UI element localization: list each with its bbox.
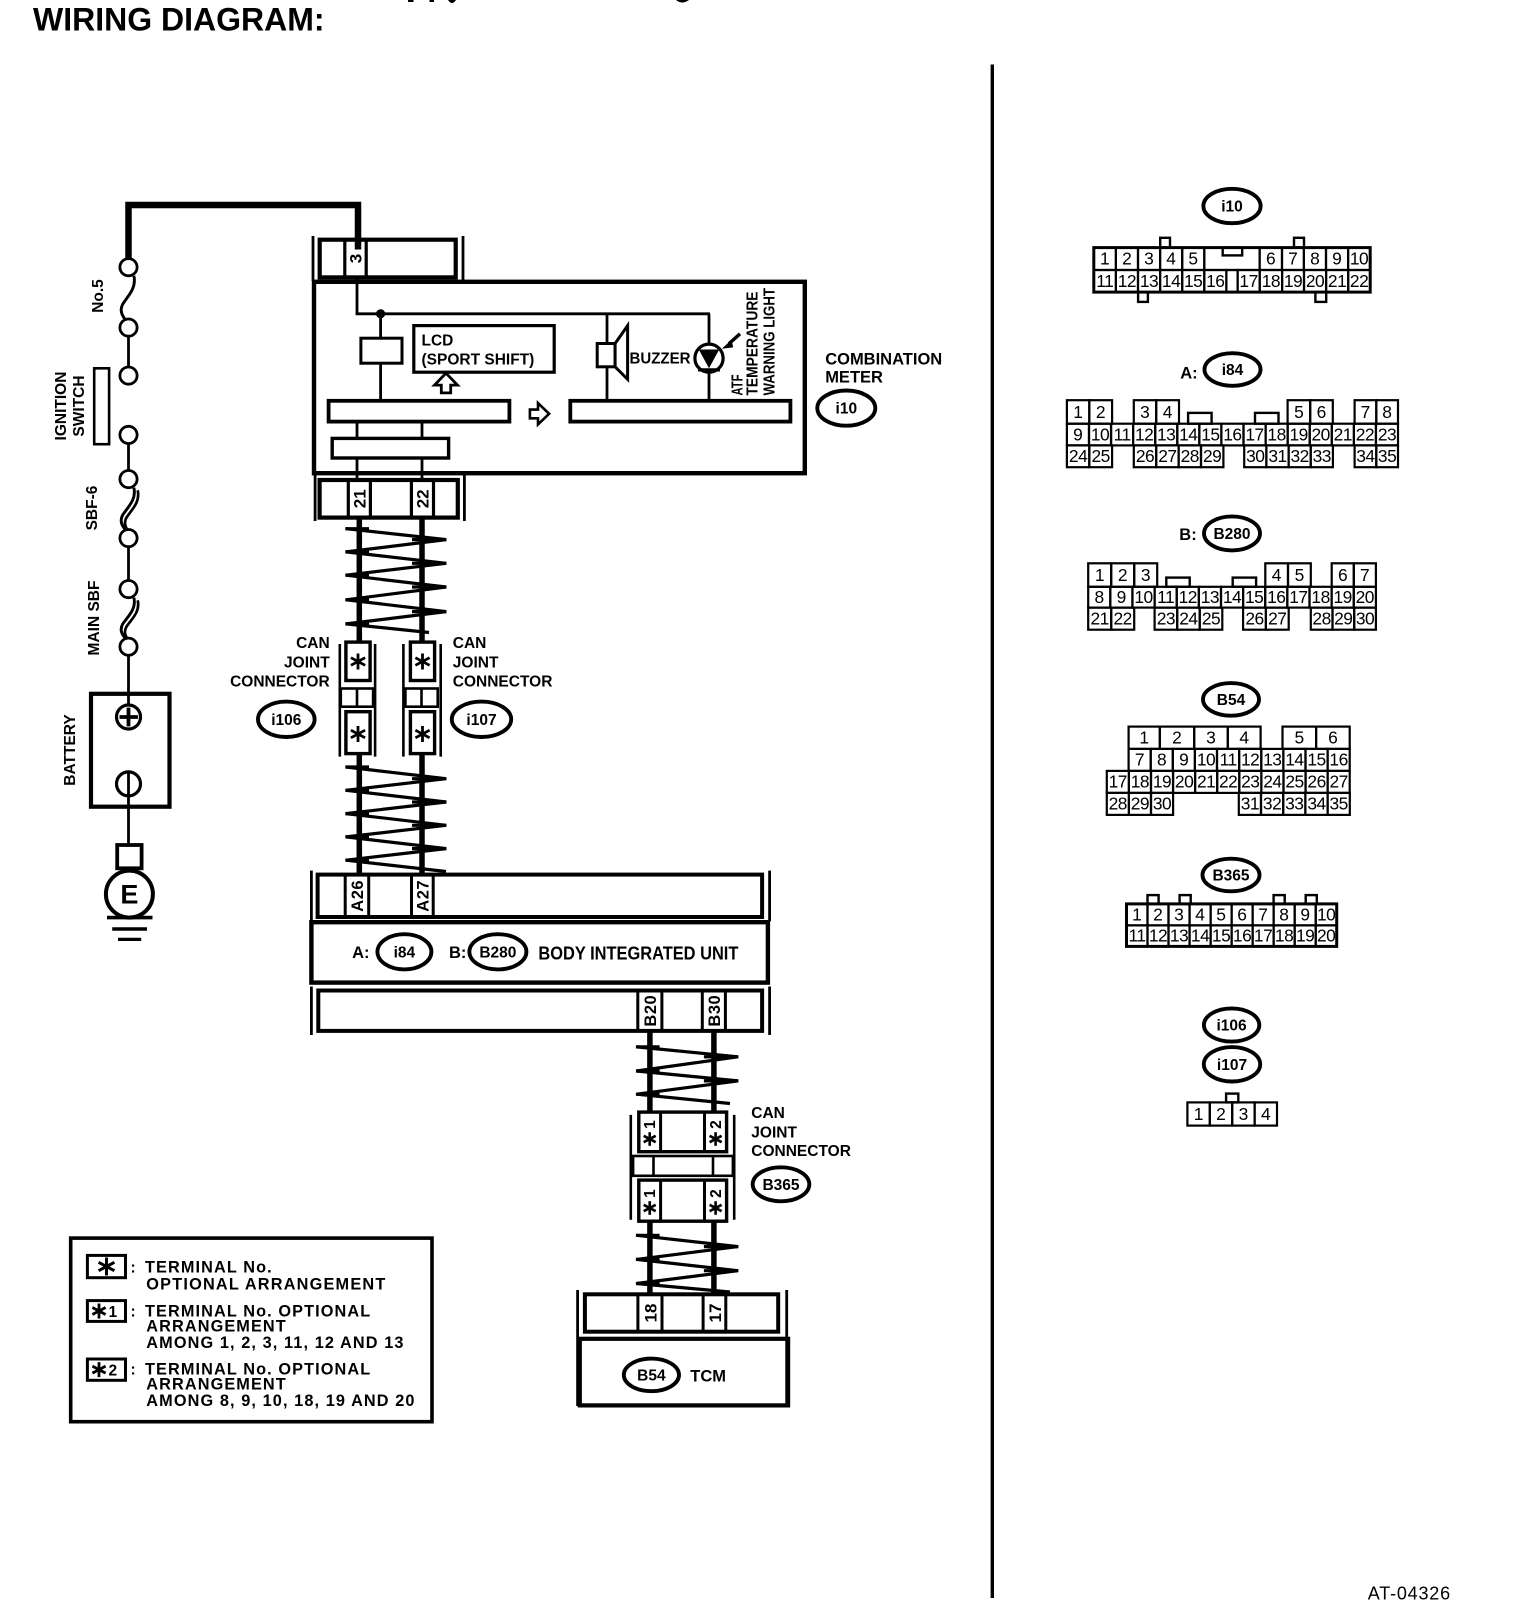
svg-text:21: 21: [1334, 424, 1352, 444]
wire pin3 into meter: [356, 277, 359, 313]
ignition switch body: [94, 368, 109, 444]
svg-text:28: 28: [1312, 609, 1330, 629]
svg-text:12: 12: [1241, 750, 1259, 770]
node MAIN SBF bottom terminal: [120, 638, 137, 655]
svg-text:i84: i84: [394, 944, 416, 961]
svg-text:30: 30: [1246, 446, 1264, 466]
svg-text:3: 3: [1144, 249, 1154, 269]
svg-text:B:: B:: [1179, 526, 1196, 544]
i10 center notch: [1223, 248, 1243, 256]
svg-text:5: 5: [1295, 565, 1305, 585]
wire: [356, 422, 359, 439]
svg-text:31: 31: [1241, 794, 1259, 814]
svg-text:12: 12: [1135, 424, 1153, 444]
svg-text:19: 19: [1334, 587, 1352, 607]
wire MAIN SBF to battery +: [127, 655, 130, 705]
svg-text:32: 32: [1291, 446, 1309, 466]
ATF temperature warning light (LED): [708, 314, 711, 345]
svg-text:21: 21: [1091, 609, 1109, 629]
pin label *2 (lower): [714, 1201, 717, 1215]
svg-text:3: 3: [1174, 904, 1184, 924]
svg-text:2: 2: [109, 1363, 118, 1380]
svg-text:12: 12: [1118, 271, 1136, 291]
svg-text:25: 25: [1092, 446, 1110, 466]
pin label *1 (lower): [648, 1201, 651, 1215]
svg-text:CAN: CAN: [296, 635, 330, 652]
svg-text:13: 13: [1157, 424, 1175, 444]
svg-text:28: 28: [1181, 446, 1199, 466]
svg-text:A:: A:: [1180, 365, 1197, 383]
svg-text:20: 20: [1356, 587, 1374, 607]
warning light arrow: [729, 334, 740, 344]
svg-text:15: 15: [1184, 271, 1202, 291]
svg-text:27: 27: [1268, 609, 1286, 629]
svg-text:7: 7: [1135, 750, 1145, 770]
LCD display bar: [329, 401, 510, 422]
svg-text:ARRANGEMENT: ARRANGEMENT: [146, 1318, 287, 1336]
svg-text:3: 3: [1141, 565, 1151, 585]
B280 keying tab 1: [1166, 578, 1189, 587]
svg-text:15: 15: [1212, 926, 1230, 946]
i106/i107 keying tab: [1226, 1094, 1238, 1103]
svg-text:18: 18: [1267, 424, 1285, 444]
svg-text:MAIN SBF: MAIN SBF: [86, 581, 103, 656]
svg-text:6: 6: [1338, 565, 1348, 585]
svg-text:14: 14: [1191, 926, 1210, 946]
svg-text:A:: A:: [352, 944, 369, 962]
LCD (SPORT SHIFT) label box: [414, 326, 554, 373]
svg-text:JOINT: JOINT: [284, 654, 330, 671]
svg-text:21: 21: [1328, 271, 1346, 291]
ground connector square: [117, 845, 141, 868]
svg-text:4: 4: [1166, 249, 1176, 269]
svg-text:10: 10: [1350, 249, 1368, 269]
connector strip i10 pin 3 (combination meter top): [312, 236, 315, 281]
svg-text:7: 7: [1258, 904, 1268, 924]
svg-text:22: 22: [414, 489, 433, 508]
svg-text:LCD: LCD: [422, 333, 454, 350]
connector view B54 pin grid: [1129, 727, 1160, 749]
svg-text:6: 6: [1317, 402, 1327, 422]
svg-text:CAN: CAN: [751, 1105, 785, 1122]
svg-text:9: 9: [1179, 750, 1189, 770]
svg-text:11: 11: [1157, 587, 1174, 607]
wire block to LCD bar: [379, 363, 382, 401]
i84 keying tab 1: [1188, 413, 1212, 424]
svg-text:2: 2: [1118, 565, 1128, 585]
svg-text:1: 1: [642, 1120, 659, 1129]
svg-text:6: 6: [1237, 904, 1247, 924]
svg-text:15: 15: [1245, 587, 1263, 607]
svg-text:16: 16: [1223, 424, 1241, 444]
svg-text:SWITCH: SWITCH: [71, 375, 88, 436]
svg-text:16: 16: [1206, 271, 1224, 291]
svg-text:B20: B20: [642, 995, 660, 1027]
svg-text:1: 1: [1073, 402, 1083, 422]
connector strip A26/A27 (BIU top): [310, 871, 313, 922]
connector view B280 oval: [1204, 516, 1260, 550]
svg-text:21: 21: [350, 489, 369, 508]
connector i10 oval: [817, 391, 875, 426]
svg-text:i107: i107: [466, 712, 496, 729]
svg-text:30: 30: [1356, 609, 1374, 629]
svg-text:19: 19: [1153, 772, 1171, 792]
svg-text:B54: B54: [1217, 692, 1246, 709]
legend box: [71, 1238, 432, 1422]
svg-text:BATTERY: BATTERY: [62, 714, 79, 786]
svg-text:29: 29: [1131, 794, 1149, 814]
svg-text:13: 13: [1140, 271, 1158, 291]
battery - terminal: [127, 772, 130, 845]
B280 keying tab 2: [1233, 578, 1256, 587]
ground E: [106, 871, 153, 918]
wire to meter internal block: [379, 314, 382, 338]
svg-text:13: 13: [1170, 926, 1188, 946]
svg-text:14: 14: [1179, 424, 1198, 444]
node ignition switch terminal 1: [120, 367, 137, 384]
svg-text:28: 28: [1109, 794, 1127, 814]
right arrow: [530, 403, 549, 424]
svg-text:1: 1: [1139, 728, 1149, 748]
body integrated unit box: [311, 922, 768, 982]
connector B365 oval: [753, 1167, 810, 1201]
svg-text:5: 5: [1294, 728, 1304, 748]
svg-text:AMONG 1, 2, 3, 11, 12 AND 13: AMONG 1, 2, 3, 11, 12 AND 13: [146, 1334, 404, 1352]
svg-text:A26: A26: [349, 880, 367, 912]
legend *2 symbol: [87, 1359, 125, 1380]
B365 keying tab: [1306, 895, 1317, 904]
connector B54 oval: [624, 1359, 679, 1392]
twisted pair CAN wires B365 to TCM: [647, 1221, 653, 1294]
svg-text:4: 4: [1195, 904, 1205, 924]
svg-text::: :: [131, 1260, 136, 1277]
svg-text:15: 15: [1307, 750, 1325, 770]
svg-text:7: 7: [1360, 565, 1370, 585]
svg-text:25: 25: [1285, 772, 1303, 792]
svg-text:35: 35: [1330, 794, 1348, 814]
svg-text:3: 3: [347, 254, 366, 263]
svg-text:13: 13: [1263, 750, 1281, 770]
svg-text:18: 18: [1262, 271, 1280, 291]
node SBF-6 top terminal: [120, 471, 137, 488]
svg-text:19: 19: [1284, 271, 1302, 291]
svg-text:14: 14: [1162, 271, 1181, 291]
B365 keying tab: [1180, 895, 1191, 904]
connector i107 oval: [452, 702, 511, 737]
svg-text:i106: i106: [271, 712, 302, 729]
wire battery feed to combination meter pin 3: [129, 205, 359, 259]
svg-text:9: 9: [1117, 587, 1127, 607]
i10 keying tab bottom-right: [1315, 292, 1326, 302]
svg-text:BODY INTEGRATED UNIT: BODY INTEGRATED UNIT: [538, 943, 739, 964]
svg-text:16: 16: [1267, 587, 1285, 607]
svg-text:JOINT: JOINT: [751, 1125, 797, 1142]
svg-text:CONNECTOR: CONNECTOR: [751, 1143, 851, 1160]
node SBF-6 bottom terminal: [120, 530, 137, 547]
svg-text:15: 15: [1201, 424, 1219, 444]
svg-text:8: 8: [1094, 587, 1104, 607]
svg-text:7: 7: [1361, 402, 1371, 422]
svg-text:25: 25: [1202, 609, 1220, 629]
svg-text:22: 22: [1350, 271, 1368, 291]
svg-text:IGNITION: IGNITION: [53, 372, 70, 441]
svg-text:9: 9: [1300, 904, 1310, 924]
svg-text:17: 17: [1245, 424, 1263, 444]
svg-text:1: 1: [1194, 1104, 1204, 1124]
svg-text:34: 34: [1356, 446, 1375, 466]
svg-text:14: 14: [1285, 750, 1304, 770]
svg-text:10: 10: [1134, 587, 1152, 607]
twisted pair CAN wires joint connectors to BIU: [357, 754, 363, 875]
svg-text:A27: A27: [415, 880, 433, 912]
svg-text:CONNECTOR: CONNECTOR: [230, 674, 330, 691]
svg-text:No.5: No.5: [90, 279, 107, 313]
svg-text:4: 4: [1272, 565, 1282, 585]
svg-text:20: 20: [1175, 772, 1193, 792]
svg-text:4: 4: [1163, 402, 1173, 422]
pin label *2 (upper): [714, 1132, 717, 1146]
svg-text:26: 26: [1136, 446, 1154, 466]
svg-text:B280: B280: [479, 944, 516, 961]
connector strip B20/B30 (BIU bottom): [310, 987, 313, 1036]
twisted pair CAN wires BIU to B365: [647, 1031, 653, 1112]
connector view i84 oval: [1205, 353, 1261, 386]
svg-text:17: 17: [1289, 587, 1307, 607]
svg-text:2: 2: [1122, 249, 1132, 269]
svg-text:WIRING DIAGRAM:: WIRING DIAGRAM:: [33, 2, 325, 38]
svg-text:5: 5: [1294, 402, 1304, 422]
connector B280 oval: [469, 934, 526, 969]
svg-text:22: 22: [1219, 772, 1237, 792]
svg-text:1: 1: [1100, 249, 1110, 269]
svg-text:3: 3: [1140, 402, 1150, 422]
svg-text:i10: i10: [1221, 199, 1243, 216]
i10 keying tab top-right: [1294, 238, 1304, 248]
svg-text:8: 8: [1157, 750, 1167, 770]
svg-text:E: E: [120, 880, 138, 910]
svg-text::: :: [131, 1362, 136, 1379]
svg-text:1: 1: [1132, 904, 1142, 924]
svg-text:ARRANGEMENT: ARRANGEMENT: [146, 1376, 287, 1394]
svg-text:17: 17: [1109, 772, 1127, 792]
svg-text:10: 10: [1317, 904, 1335, 924]
svg-text:9: 9: [1332, 249, 1342, 269]
svg-text:7: 7: [1288, 249, 1298, 269]
svg-text:8: 8: [1279, 904, 1289, 924]
connector view i106 oval: [1204, 1008, 1259, 1041]
svg-text:27: 27: [1330, 772, 1348, 792]
svg-text:SBF-6: SBF-6: [84, 485, 101, 530]
connector view i10 oval: [1203, 189, 1260, 223]
node fuse No.5 top terminal: [120, 259, 137, 276]
svg-text:5: 5: [1216, 904, 1226, 924]
connector strip B54 pins 18/17 (TCM): [576, 1290, 579, 1406]
fusible link SBF-6: [121, 488, 134, 530]
svg-text:B54: B54: [637, 1367, 666, 1384]
buzzer: [606, 314, 609, 344]
wire to pin 21: [356, 458, 359, 480]
svg-text:11: 11: [1114, 424, 1131, 444]
svg-text:METER: METER: [825, 368, 883, 386]
svg-text:26: 26: [1245, 609, 1263, 629]
svg-text:22: 22: [1114, 609, 1132, 629]
svg-text:17: 17: [1254, 926, 1272, 946]
svg-text:32: 32: [1263, 794, 1281, 814]
svg-text:8: 8: [1310, 249, 1320, 269]
svg-text:23: 23: [1241, 772, 1259, 792]
svg-text:i107: i107: [1217, 1057, 1247, 1074]
svg-text:20: 20: [1312, 424, 1330, 444]
svg-text:1: 1: [109, 1304, 118, 1321]
svg-text:AT-04326: AT-04326: [1368, 1583, 1451, 1603]
svg-text:1: 1: [1095, 565, 1105, 585]
svg-text:6: 6: [1266, 249, 1276, 269]
svg-text:34: 34: [1307, 794, 1326, 814]
svg-text:18: 18: [1131, 772, 1149, 792]
svg-text:COMBINATION: COMBINATION: [825, 350, 942, 368]
svg-text:23: 23: [1157, 609, 1175, 629]
svg-text:29: 29: [1203, 446, 1221, 466]
svg-text:3: 3: [1206, 728, 1216, 748]
svg-text:17: 17: [706, 1304, 725, 1323]
svg-text:20: 20: [1306, 271, 1324, 291]
svg-text:2: 2: [1216, 1104, 1226, 1124]
svg-text:16: 16: [1329, 750, 1347, 770]
svg-text:26: 26: [1307, 772, 1325, 792]
svg-text:2: 2: [708, 1189, 725, 1198]
svg-text:12: 12: [1149, 926, 1167, 946]
svg-text:24: 24: [1263, 772, 1282, 792]
svg-text:29: 29: [1334, 609, 1352, 629]
svg-text:OPTIONAL ARRANGEMENT: OPTIONAL ARRANGEMENT: [146, 1276, 386, 1294]
wire to pin 22: [421, 458, 424, 480]
svg-text:i84: i84: [1222, 362, 1244, 379]
svg-text:WARNING LIGHT: WARNING LIGHT: [762, 288, 779, 396]
svg-text:BUZZER: BUZZER: [630, 351, 691, 368]
svg-text:AMONG 8, 9, 10, 18, 19 AND 20: AMONG 8, 9, 10, 18, 19 AND 20: [146, 1392, 415, 1410]
pin label *1 (upper): [648, 1132, 651, 1146]
svg-text:19: 19: [1290, 424, 1308, 444]
svg-text:2: 2: [1153, 904, 1163, 924]
svg-text:B:: B:: [449, 944, 466, 962]
meter lower block: [332, 438, 448, 458]
node MAIN SBF top terminal: [120, 581, 137, 598]
node ignition switch terminal 2: [120, 426, 137, 443]
up arrow: [435, 373, 458, 393]
svg-text:31: 31: [1268, 446, 1286, 466]
svg-text:27: 27: [1158, 446, 1176, 466]
wire SBF-6 to MAIN SBF: [127, 547, 130, 581]
svg-text:CAN: CAN: [453, 635, 487, 652]
svg-text:2: 2: [1096, 402, 1106, 422]
legend *1 symbol: [87, 1301, 125, 1322]
svg-text:9: 9: [1073, 424, 1083, 444]
CAN joint connector i106: [338, 644, 341, 757]
svg-text:18: 18: [641, 1304, 660, 1323]
cut-off text fragments top: [408, 0, 414, 2]
B365 keying tab: [1148, 895, 1159, 904]
B365 keying tab: [1274, 895, 1285, 904]
svg-text:TEMPERATURE: TEMPERATURE: [745, 292, 762, 396]
fusible link MAIN SBF: [121, 598, 134, 638]
svg-text:2: 2: [708, 1120, 725, 1129]
i10 keying tab bottom-left: [1138, 292, 1148, 302]
connector strip i10 pins 21/22: [314, 474, 317, 521]
svg-text::: :: [131, 1304, 136, 1321]
svg-text:TCM: TCM: [690, 1367, 726, 1385]
svg-text:23: 23: [1378, 424, 1396, 444]
buzzer/LED bar: [570, 401, 790, 422]
wire ignition switch to SBF-6: [127, 444, 130, 471]
svg-text:24: 24: [1069, 446, 1088, 466]
connector view i107 oval: [1204, 1047, 1260, 1081]
svg-text:4: 4: [1261, 1104, 1271, 1124]
meter internal block: [361, 338, 402, 363]
fuse No.5: [121, 276, 134, 320]
svg-text:B280: B280: [1213, 526, 1250, 543]
CAN joint connector B365: [629, 1115, 632, 1220]
connector view B365 oval: [1203, 859, 1260, 892]
svg-text:11: 11: [1096, 271, 1113, 291]
combination meter box: [314, 282, 805, 473]
CAN joint connector i107: [402, 644, 405, 757]
svg-text:B365: B365: [1212, 868, 1249, 885]
twisted pair CAN wires meter to joint connectors: [357, 518, 363, 643]
svg-text:3: 3: [1239, 1104, 1249, 1124]
i84 keying tab 2: [1255, 413, 1279, 424]
svg-text:11: 11: [1128, 926, 1145, 946]
wire: [421, 422, 424, 439]
svg-text:CONNECTOR: CONNECTOR: [453, 674, 553, 691]
svg-text:B365: B365: [762, 1177, 799, 1194]
svg-text:4: 4: [1239, 728, 1249, 748]
battery + terminal: [117, 705, 141, 729]
svg-text:18: 18: [1311, 587, 1329, 607]
svg-text:12: 12: [1179, 587, 1197, 607]
legend * symbol: [87, 1255, 125, 1277]
svg-text:33: 33: [1313, 446, 1331, 466]
wire fuse to ignition switch: [127, 336, 130, 367]
svg-text:2: 2: [1172, 728, 1182, 748]
connector i84 oval: [377, 934, 431, 969]
connector view B280 pin grid: [1088, 563, 1111, 587]
svg-text:TERMINAL No.: TERMINAL No.: [145, 1259, 273, 1277]
svg-text:21: 21: [1197, 772, 1215, 792]
svg-text:10: 10: [1091, 424, 1109, 444]
svg-text:19: 19: [1296, 926, 1314, 946]
svg-text:33: 33: [1285, 794, 1303, 814]
svg-text:18: 18: [1275, 926, 1293, 946]
svg-text:1: 1: [642, 1189, 659, 1198]
svg-text:JOINT: JOINT: [453, 654, 499, 671]
connector view B54 oval: [1203, 683, 1259, 716]
svg-text:20: 20: [1317, 926, 1335, 946]
svg-text:16: 16: [1233, 926, 1251, 946]
svg-text:(SPORT SHIFT): (SPORT SHIFT): [422, 352, 535, 369]
svg-text:6: 6: [1328, 728, 1338, 748]
i10 keying tab top-left: [1160, 238, 1170, 248]
battery: [91, 694, 170, 807]
svg-text:5: 5: [1188, 249, 1198, 269]
TCM box: [580, 1339, 788, 1406]
svg-text:B30: B30: [706, 995, 724, 1027]
svg-text:35: 35: [1378, 446, 1396, 466]
svg-text:8: 8: [1382, 402, 1392, 422]
svg-text:17: 17: [1239, 271, 1257, 291]
svg-text:i10: i10: [836, 401, 858, 418]
svg-text:11: 11: [1220, 750, 1237, 770]
svg-text:22: 22: [1356, 424, 1374, 444]
